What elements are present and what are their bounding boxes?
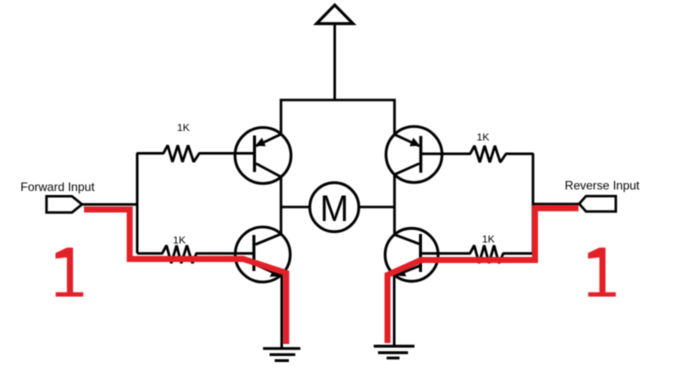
svg-text:Forward Input: Forward Input bbox=[21, 180, 96, 194]
svg-text:1K: 1K bbox=[477, 131, 490, 143]
svg-text:1K: 1K bbox=[173, 235, 186, 247]
svg-text:1K: 1K bbox=[482, 234, 495, 246]
svg-text:1K: 1K bbox=[177, 122, 190, 134]
svg-text:M: M bbox=[320, 188, 349, 229]
svg-text:Reverse Input: Reverse Input bbox=[565, 179, 640, 193]
